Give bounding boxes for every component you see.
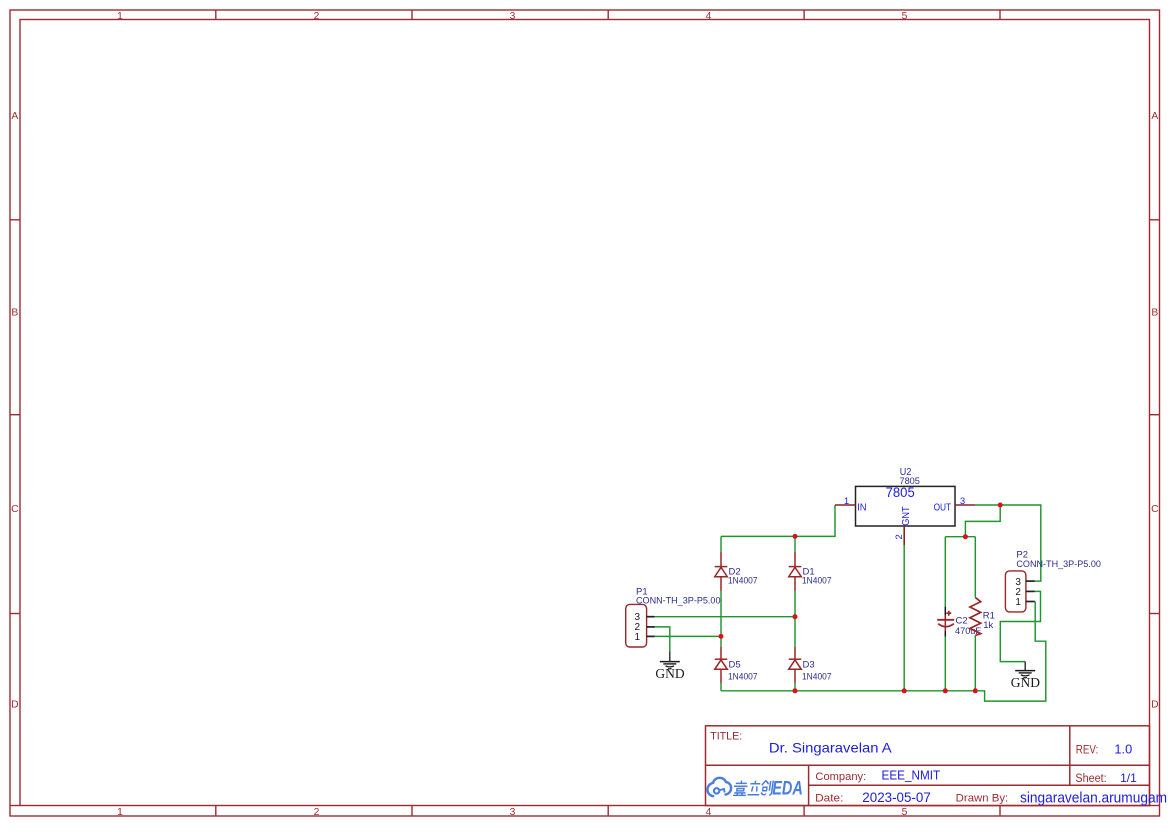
title block (706, 726, 1168, 807)
svg-text:C: C (11, 504, 19, 515)
svg-text:3: 3 (960, 496, 965, 507)
svg-text:5: 5 (902, 807, 908, 818)
label P1 designator and value CONN-TH_3P-P5.00 (636, 587, 721, 607)
junction dots (719, 503, 1003, 694)
wire R1 top (974, 537, 976, 598)
pin 1 P2 (1026, 601, 1035, 603)
wire D3 bottom segment (794, 683, 796, 691)
pin 2 P1 (647, 626, 655, 628)
diode D2 (715, 552, 728, 591)
label D5 designator and value 1N4007 (728, 660, 758, 683)
wire D2 column top segment (720, 536, 722, 551)
svg-text:C: C (1151, 504, 1159, 515)
pin 3 P2 (1026, 580, 1035, 582)
wire OUT net to P2 pin3 (975, 505, 1041, 581)
svg-text:7805: 7805 (886, 485, 915, 500)
wire P1 pin3 to D1 anode (653, 616, 796, 618)
svg-text:4: 4 (706, 11, 712, 22)
svg-text:1.0: 1.0 (1114, 741, 1132, 756)
svg-text:Company:: Company: (815, 771, 866, 783)
svg-text:D: D (11, 699, 18, 710)
svg-text:2: 2 (314, 11, 320, 22)
svg-text:OUT: OUT (934, 503, 952, 514)
svg-text:EDA: EDA (772, 779, 803, 800)
svg-text:2023-05-07: 2023-05-07 (862, 790, 931, 805)
svg-text:Dr. Singaravelan A: Dr. Singaravelan A (769, 740, 892, 756)
svg-text:1N4007: 1N4007 (802, 671, 832, 682)
svg-text:Sheet:: Sheet: (1075, 773, 1106, 785)
svg-text:EEE_NMIT: EEE_NMIT (882, 769, 941, 783)
svg-text:singaravelan.arumugam: singaravelan.arumugam (1020, 791, 1167, 807)
wire filter top rail C2 to R1 (945, 536, 975, 538)
svg-text:A: A (11, 111, 18, 122)
node junction U2 pin2 bottom rail (902, 688, 907, 693)
wire D5 bottom segment (720, 683, 722, 691)
svg-text:3: 3 (510, 11, 516, 22)
wire C2 top (944, 537, 946, 607)
svg-text:REV:: REV: (1076, 742, 1099, 756)
node junction D3 bottom rail (793, 688, 798, 693)
svg-text:CONN-TH_3P-P5.00: CONN-TH_3P-P5.00 (1016, 559, 1101, 570)
capacitor C2 (937, 607, 981, 637)
schematic wires (653, 505, 1046, 701)
pin 3 P1 (647, 616, 655, 618)
node junction P1 pin1 / D2 anode (719, 634, 724, 639)
svg-text:1: 1 (635, 632, 641, 643)
node junction filter top rail (963, 534, 968, 539)
svg-text:2: 2 (894, 534, 905, 539)
svg-text:A: A (1151, 111, 1158, 122)
wire C2 bottom (944, 637, 946, 691)
pin numbers P1: 3 2 1 (635, 612, 641, 643)
svg-text:GNT: GNT (901, 506, 912, 526)
diode D1 (789, 552, 802, 591)
pin 1 P1 (647, 635, 655, 637)
ground GND near P2 (1011, 662, 1040, 690)
diode D5 (715, 647, 728, 683)
svg-text:CONN-TH_3P-P5.00: CONN-TH_3P-P5.00 (636, 595, 721, 606)
pin numbers P2: 3 2 1 (1015, 577, 1021, 608)
pin 3 U2 (955, 504, 975, 506)
svg-text:Drawn By:: Drawn By: (956, 792, 1009, 804)
pin 2 P2 (1026, 590, 1035, 592)
wire P1 pin1 to D2 anode (653, 635, 722, 637)
svg-text:IN: IN (857, 503, 866, 514)
node junction OUT (998, 503, 1003, 508)
svg-text:1: 1 (117, 807, 123, 818)
svg-text:D5: D5 (729, 660, 741, 671)
label D2 designator and value 1N4007 (728, 567, 758, 587)
svg-text:B: B (11, 308, 18, 319)
label C2 designator and value 470uF (955, 616, 981, 638)
svg-text:1N4007: 1N4007 (802, 576, 832, 587)
label U2 designator, value 7805, pin names IN GNT OUT, pin numbers 1 2 3 (844, 467, 965, 540)
label P2 designator and value CONN-TH_3P-P5.00 (1016, 550, 1101, 571)
svg-text:1N4007: 1N4007 (728, 576, 758, 587)
svg-text:1: 1 (1015, 597, 1021, 608)
svg-text:GND: GND (655, 666, 684, 681)
logo (707, 778, 802, 800)
op-amp U2 regulator 7805 (835, 467, 975, 546)
wire bottom rail to P2 pin1 (721, 602, 1046, 702)
label R1 designator and value 1k (983, 611, 995, 632)
wire P2 pin2 to GND (1000, 591, 1040, 661)
svg-text:1/1: 1/1 (1120, 771, 1137, 785)
wire R1 bottom (974, 636, 976, 691)
node junction R1 bottom rail (973, 688, 978, 693)
label D1 designator and value 1N4007 (802, 567, 832, 587)
wire net IN: U2 pin1 to bridge top rail (721, 505, 835, 536)
label D3 designator and value 1N4007 (802, 660, 832, 683)
svg-text:B: B (1151, 308, 1158, 319)
svg-text:Date:: Date: (815, 792, 843, 804)
ground GND near P1 (655, 652, 684, 682)
node junction P1 pin3 / D1 anode (793, 614, 798, 619)
svg-text:1k: 1k (983, 620, 993, 631)
connector P1 (626, 587, 721, 648)
svg-text:D: D (1151, 699, 1158, 710)
connector P2 (1005, 550, 1101, 612)
svg-text:1: 1 (117, 11, 123, 22)
diode D3 (789, 647, 802, 683)
resistor R1 (970, 597, 995, 635)
pin 1 U2 (835, 504, 856, 506)
wire D2 to D5 column middle segment (720, 591, 722, 647)
svg-text:5: 5 (902, 11, 908, 22)
wire P1 pin2 to GND (653, 627, 670, 652)
svg-text:1: 1 (844, 496, 849, 507)
wire D1 column top segment (794, 536, 796, 551)
svg-text:2: 2 (314, 807, 320, 818)
svg-text:3: 3 (510, 807, 516, 818)
svg-text:C2: C2 (956, 616, 968, 627)
pin 2 U2 (903, 526, 905, 545)
node junction C2 bottom rail (943, 688, 948, 693)
node junction D1 cathode / top rail (793, 534, 798, 539)
svg-text:TITLE:: TITLE: (710, 731, 742, 743)
wire D1 to D3 column middle segment (794, 591, 796, 647)
svg-text:GND: GND (1011, 675, 1040, 690)
svg-text:1N4007: 1N4007 (728, 671, 758, 682)
wire U2 pin2 to bottom rail (903, 545, 905, 691)
svg-text:D3: D3 (803, 660, 815, 671)
wire OUT branch to filter top rail (965, 505, 1000, 537)
svg-text:4: 4 (706, 807, 712, 818)
